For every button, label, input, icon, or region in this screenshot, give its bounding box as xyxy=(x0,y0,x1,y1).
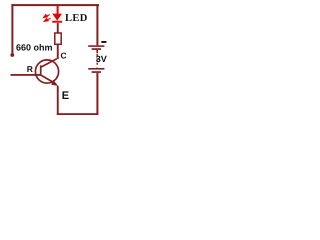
node base feed dot xyxy=(10,53,14,57)
battery BT1 cell1 short plate xyxy=(92,48,101,50)
wire resistor to LED cathode xyxy=(57,23,59,33)
wire top rail xyxy=(11,4,99,6)
wire collector xyxy=(57,45,59,60)
wire battery bottom xyxy=(96,73,98,115)
battery BT1 cell2 short plate xyxy=(92,71,101,73)
wire emitter down xyxy=(57,86,59,115)
svg-text:3V: 3V xyxy=(96,54,107,64)
svg-text:660 ohm: 660 ohm xyxy=(16,43,53,53)
LED light emission arrows xyxy=(44,15,51,22)
svg-text:C: C xyxy=(61,50,67,60)
label minus polarity xyxy=(101,41,106,43)
svg-text:E: E xyxy=(62,90,69,102)
battery BT1 inter-cell stub xyxy=(96,50,98,53)
wire bottom rail xyxy=(57,113,99,115)
svg-text:LED: LED xyxy=(65,13,88,24)
LED D1 xyxy=(52,6,62,23)
wire left branch xyxy=(11,4,13,54)
battery BT1 cell2 long plate xyxy=(88,68,104,70)
battery BT1 inter-cell dashed link xyxy=(96,54,98,68)
svg-text:R: R xyxy=(27,64,33,74)
wire base xyxy=(11,74,41,76)
battery BT1 cell1 long plate xyxy=(88,45,104,47)
wire battery top xyxy=(96,4,98,45)
transistor Q1 xyxy=(35,59,58,86)
resistor R1 660 ohm xyxy=(55,33,61,44)
